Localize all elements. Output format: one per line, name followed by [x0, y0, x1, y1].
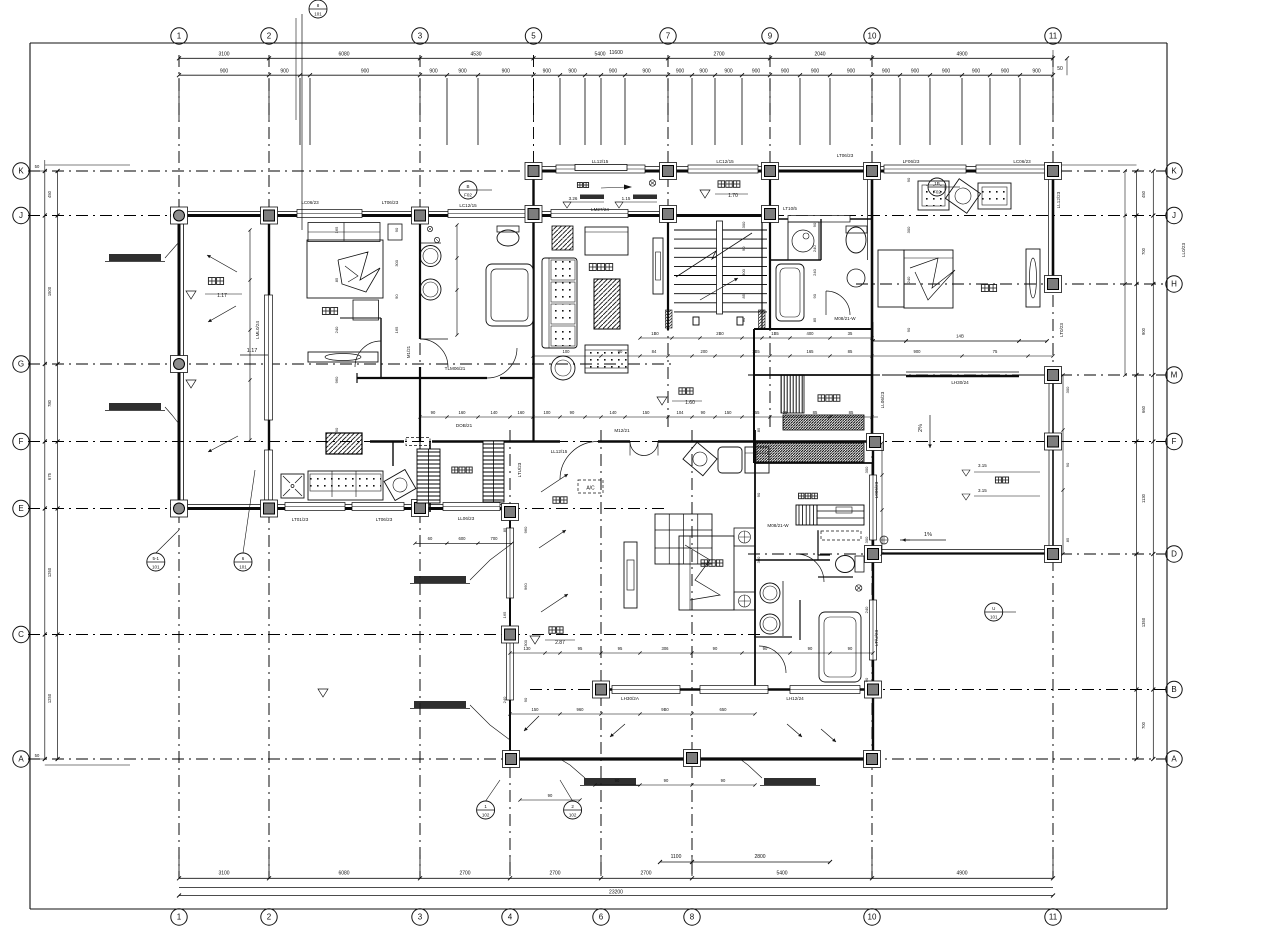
svg-text:900: 900: [699, 69, 708, 75]
svg-text:660: 660: [1141, 405, 1146, 413]
svg-text:3100: 3100: [218, 871, 229, 877]
svg-text:11: 11: [1049, 913, 1058, 922]
svg-text:900: 900: [781, 69, 790, 75]
svg-text:1B5: 1B5: [752, 349, 760, 354]
svg-text:4: 4: [508, 913, 513, 922]
svg-text:90: 90: [864, 677, 869, 682]
svg-text:900: 900: [1141, 327, 1146, 335]
svg-text:23200: 23200: [609, 890, 623, 896]
svg-text:1.15: 1.15: [622, 196, 631, 201]
svg-text:6080: 6080: [338, 871, 349, 877]
svg-text:7: 7: [666, 32, 671, 41]
svg-text:LL06/23: LL06/23: [458, 516, 475, 521]
svg-text:95: 95: [578, 646, 583, 651]
svg-text:LT06/23: LT06/23: [382, 200, 399, 205]
svg-text:900: 900: [543, 69, 552, 75]
svg-text:LH12/24: LH12/24: [786, 696, 804, 701]
svg-text:900: 900: [502, 69, 511, 75]
svg-text:102: 102: [482, 813, 490, 818]
svg-text:LT01/23: LT01/23: [292, 517, 309, 522]
svg-text:F: F: [1172, 437, 1177, 446]
svg-text:LC12/15: LC12/15: [459, 203, 477, 208]
svg-text:LT06/23: LT06/23: [837, 153, 854, 158]
svg-text:L006/23: L006/23: [874, 481, 879, 498]
svg-text:5: 5: [531, 32, 536, 41]
svg-text:14B: 14B: [956, 334, 964, 339]
svg-text:165: 165: [807, 349, 815, 354]
svg-text:300: 300: [394, 259, 399, 266]
svg-text:450: 450: [47, 190, 52, 198]
svg-text:300: 300: [1065, 386, 1070, 393]
svg-text:2.87: 2.87: [555, 640, 565, 646]
svg-text:1%: 1%: [924, 532, 932, 538]
svg-text:1B5: 1B5: [771, 331, 779, 336]
svg-text:300: 300: [864, 536, 869, 543]
svg-text:900: 900: [361, 69, 370, 75]
svg-text:K: K: [1171, 167, 1177, 176]
svg-text:100: 100: [563, 349, 571, 354]
svg-text:165: 165: [502, 611, 507, 618]
svg-text:LC12/15: LC12/15: [716, 159, 734, 164]
svg-text:A: A: [18, 755, 24, 764]
svg-text:G: G: [18, 360, 24, 369]
svg-text:400: 400: [807, 331, 815, 336]
svg-text:900: 900: [220, 69, 229, 75]
svg-text:900: 900: [914, 349, 922, 354]
svg-text:LH30/2A: LH30/2A: [621, 696, 640, 701]
svg-text:9B0: 9B0: [661, 707, 669, 712]
svg-text:300: 300: [864, 466, 869, 473]
svg-text:1.17: 1.17: [247, 348, 258, 354]
svg-text:90: 90: [741, 246, 746, 251]
svg-text:90: 90: [906, 327, 911, 332]
svg-text:LM27/24: LM27/24: [591, 207, 609, 212]
svg-text:LC06/23: LC06/23: [1013, 159, 1031, 164]
svg-text:900: 900: [609, 69, 618, 75]
svg-text:300: 300: [741, 268, 746, 275]
svg-text:E: E: [18, 504, 23, 513]
svg-text:700: 700: [1141, 247, 1146, 255]
svg-text:90: 90: [848, 646, 853, 651]
svg-text:85: 85: [849, 410, 854, 415]
svg-text:LTU/23: LTU/23: [517, 462, 522, 477]
svg-text:4900: 4900: [956, 52, 967, 58]
svg-text:900: 900: [972, 69, 981, 75]
svg-text:1100: 1100: [671, 854, 682, 860]
svg-text:2700: 2700: [713, 52, 724, 58]
svg-text:90: 90: [394, 227, 399, 232]
svg-text:2040: 2040: [814, 52, 825, 58]
svg-text:8: 8: [690, 913, 695, 922]
svg-text:M12/21: M12/21: [614, 428, 630, 433]
svg-text:90: 90: [615, 778, 620, 783]
svg-text:160: 160: [459, 410, 467, 415]
svg-text:50: 50: [35, 753, 40, 758]
svg-text:900: 900: [429, 69, 438, 75]
svg-text:3100: 3100: [218, 52, 229, 58]
svg-text:95: 95: [618, 646, 623, 651]
svg-text:1350: 1350: [1141, 617, 1146, 627]
svg-text:50: 50: [35, 164, 40, 169]
svg-text:LT10/5: LT10/5: [783, 206, 797, 211]
svg-text:900: 900: [811, 69, 820, 75]
svg-text:300: 300: [523, 639, 528, 646]
svg-text:1260: 1260: [47, 567, 52, 577]
svg-text:2700: 2700: [459, 871, 470, 877]
svg-text:LL12/23: LL12/23: [1056, 191, 1061, 208]
svg-text:700: 700: [491, 536, 499, 541]
svg-text:90: 90: [618, 349, 623, 354]
svg-text:160: 160: [518, 410, 526, 415]
svg-text:LC06/23: LC06/23: [301, 200, 319, 205]
svg-text:2: 2: [267, 913, 272, 922]
svg-text:150: 150: [643, 410, 651, 415]
svg-text:675: 675: [47, 472, 52, 480]
svg-text:900: 900: [942, 69, 951, 75]
svg-text:10: 10: [868, 32, 877, 41]
svg-text:2700: 2700: [549, 871, 560, 877]
svg-text:780: 780: [47, 399, 52, 407]
svg-text:240: 240: [864, 606, 869, 613]
svg-text:6: 6: [599, 913, 604, 922]
svg-text:150: 150: [532, 707, 540, 712]
svg-text:300: 300: [756, 556, 761, 563]
svg-text:3.15: 3.15: [978, 488, 987, 493]
svg-text:M08/21-W: M08/21-W: [767, 523, 789, 528]
svg-text:F: F: [19, 437, 24, 446]
svg-text:11600: 11600: [609, 50, 623, 56]
svg-text:3: 3: [418, 913, 423, 922]
svg-text:650: 650: [720, 707, 728, 712]
svg-text:85: 85: [756, 427, 761, 432]
svg-text:F02: F02: [464, 193, 472, 198]
svg-text:5-1: 5-1: [153, 556, 160, 561]
svg-text:90: 90: [808, 646, 813, 651]
svg-text:306: 306: [662, 646, 670, 651]
svg-text:85: 85: [741, 293, 746, 298]
svg-text:90: 90: [713, 646, 718, 651]
svg-text:15: 15: [783, 410, 788, 415]
svg-text:240: 240: [502, 696, 507, 703]
svg-text:9: 9: [768, 32, 773, 41]
svg-text:900: 900: [752, 69, 761, 75]
svg-text:240: 240: [812, 245, 817, 252]
svg-text:90: 90: [394, 294, 399, 299]
svg-text:90: 90: [906, 177, 911, 182]
svg-text:90: 90: [570, 410, 575, 415]
svg-text:10: 10: [868, 913, 877, 922]
svg-text:85: 85: [813, 410, 818, 415]
svg-text:165: 165: [334, 226, 339, 233]
svg-text:1250: 1250: [47, 693, 52, 703]
svg-text:3: 3: [418, 32, 423, 41]
svg-text:U: U: [992, 606, 995, 611]
svg-text:4530: 4530: [470, 52, 481, 58]
svg-text:11: 11: [1049, 32, 1058, 41]
svg-text:155: 155: [753, 410, 761, 415]
svg-text:90: 90: [334, 427, 339, 432]
svg-text:101: 101: [990, 615, 998, 620]
svg-text:3.15: 3.15: [978, 463, 987, 468]
svg-text:90: 90: [1065, 462, 1070, 467]
svg-text:165: 165: [394, 326, 399, 333]
svg-text:LT0/23: LT0/23: [1059, 323, 1064, 337]
svg-text:H: H: [1171, 280, 1177, 289]
svg-text:101: 101: [314, 12, 322, 17]
svg-text:960: 960: [577, 707, 585, 712]
svg-text:90: 90: [741, 317, 746, 322]
svg-text:2700: 2700: [640, 871, 651, 877]
svg-text:2%: 2%: [918, 424, 924, 432]
svg-text:5400: 5400: [776, 871, 787, 877]
svg-text:LT06/23: LT06/23: [376, 517, 393, 522]
svg-text:90: 90: [701, 410, 706, 415]
svg-text:5400: 5400: [594, 52, 605, 58]
svg-text:600: 600: [459, 536, 467, 541]
svg-text:1B: 1B: [934, 181, 940, 186]
svg-text:4900: 4900: [956, 871, 967, 877]
svg-text:90: 90: [756, 492, 761, 497]
svg-text:240: 240: [906, 276, 911, 283]
svg-text:50: 50: [1057, 66, 1063, 72]
svg-text:90: 90: [721, 778, 726, 783]
svg-text:90: 90: [812, 293, 817, 298]
svg-text:60: 60: [428, 536, 433, 541]
svg-text:90: 90: [812, 222, 817, 227]
svg-text:200: 200: [701, 349, 709, 354]
svg-text:D: D: [1171, 550, 1177, 559]
svg-text:90: 90: [431, 410, 436, 415]
svg-text:6080: 6080: [338, 52, 349, 58]
svg-text:DOB/21: DOB/21: [456, 423, 473, 428]
svg-text:900: 900: [568, 69, 577, 75]
svg-text:900: 900: [676, 69, 685, 75]
svg-text:1130: 1130: [1141, 493, 1146, 503]
svg-text:1: 1: [177, 913, 182, 922]
svg-text:J: J: [19, 211, 23, 220]
svg-text:LML0/24: LML0/24: [255, 321, 260, 339]
svg-text:900: 900: [847, 69, 856, 75]
svg-text:M08/21-W: M08/21-W: [834, 316, 856, 321]
svg-text:LL06/23: LL06/23: [880, 391, 885, 408]
svg-text:90: 90: [523, 697, 528, 702]
svg-text:700: 700: [1141, 721, 1146, 729]
svg-text:300: 300: [906, 226, 911, 233]
svg-text:240: 240: [334, 326, 339, 333]
svg-text:LL12/15: LL12/15: [592, 159, 609, 164]
svg-text:2: 2: [267, 32, 272, 41]
svg-text:84: 84: [652, 349, 657, 354]
svg-text:900: 900: [642, 69, 651, 75]
svg-text:900: 900: [882, 69, 891, 75]
svg-text:LT/U/23: LT/U/23: [874, 630, 879, 646]
svg-text:2B0: 2B0: [716, 331, 724, 336]
svg-text:900: 900: [911, 69, 920, 75]
svg-text:F02: F02: [933, 190, 941, 195]
svg-text:900: 900: [280, 69, 289, 75]
svg-text:M: M: [1171, 371, 1178, 380]
svg-text:300: 300: [741, 221, 746, 228]
svg-text:85: 85: [812, 317, 817, 322]
svg-text:85: 85: [502, 527, 507, 532]
svg-text:B: B: [466, 184, 469, 189]
svg-text:2800: 2800: [754, 854, 765, 860]
svg-text:90: 90: [548, 793, 553, 798]
svg-text:B: B: [1171, 685, 1176, 694]
svg-text:90: 90: [763, 646, 768, 651]
svg-text:LH30/24: LH30/24: [951, 380, 969, 385]
svg-text:85: 85: [334, 277, 339, 282]
svg-text:LF06/23: LF06/23: [903, 159, 920, 164]
svg-text:960: 960: [334, 376, 339, 383]
svg-text:1B0: 1B0: [651, 331, 659, 336]
svg-text:101: 101: [239, 565, 247, 570]
svg-text:A: A: [1171, 755, 1177, 764]
svg-text:900: 900: [458, 69, 467, 75]
svg-text:J: J: [1172, 211, 1176, 220]
svg-text:102: 102: [569, 813, 577, 818]
svg-text:140: 140: [491, 410, 499, 415]
svg-text:900: 900: [724, 69, 733, 75]
svg-text:240: 240: [812, 268, 817, 275]
svg-text:LL12/15: LL12/15: [551, 449, 568, 454]
svg-text:1: 1: [177, 32, 182, 41]
svg-text:900: 900: [1001, 69, 1010, 75]
svg-text:85: 85: [848, 349, 853, 354]
svg-text:960: 960: [523, 526, 528, 533]
svg-text:1500: 1500: [47, 286, 52, 296]
svg-text:150: 150: [725, 410, 733, 415]
svg-text:85: 85: [1065, 537, 1070, 542]
svg-text:3.26: 3.26: [569, 196, 578, 201]
svg-text:140: 140: [610, 410, 618, 415]
svg-text:104: 104: [677, 410, 685, 415]
svg-text:960: 960: [523, 583, 528, 590]
svg-text:450: 450: [1141, 190, 1146, 198]
svg-text:LL0/23: LL0/23: [1181, 243, 1186, 257]
svg-text:K: K: [18, 167, 24, 176]
svg-text:101: 101: [152, 565, 160, 570]
svg-text:M1/21: M1/21: [406, 345, 411, 358]
svg-text:TLM06/21: TLM06/21: [445, 366, 466, 371]
svg-text:900: 900: [1032, 69, 1041, 75]
svg-text:C: C: [18, 630, 24, 639]
svg-text:90: 90: [664, 778, 669, 783]
svg-text:A/C: A/C: [586, 486, 595, 492]
svg-text:75: 75: [993, 349, 998, 354]
svg-text:35: 35: [848, 331, 853, 336]
svg-text:100: 100: [544, 410, 552, 415]
